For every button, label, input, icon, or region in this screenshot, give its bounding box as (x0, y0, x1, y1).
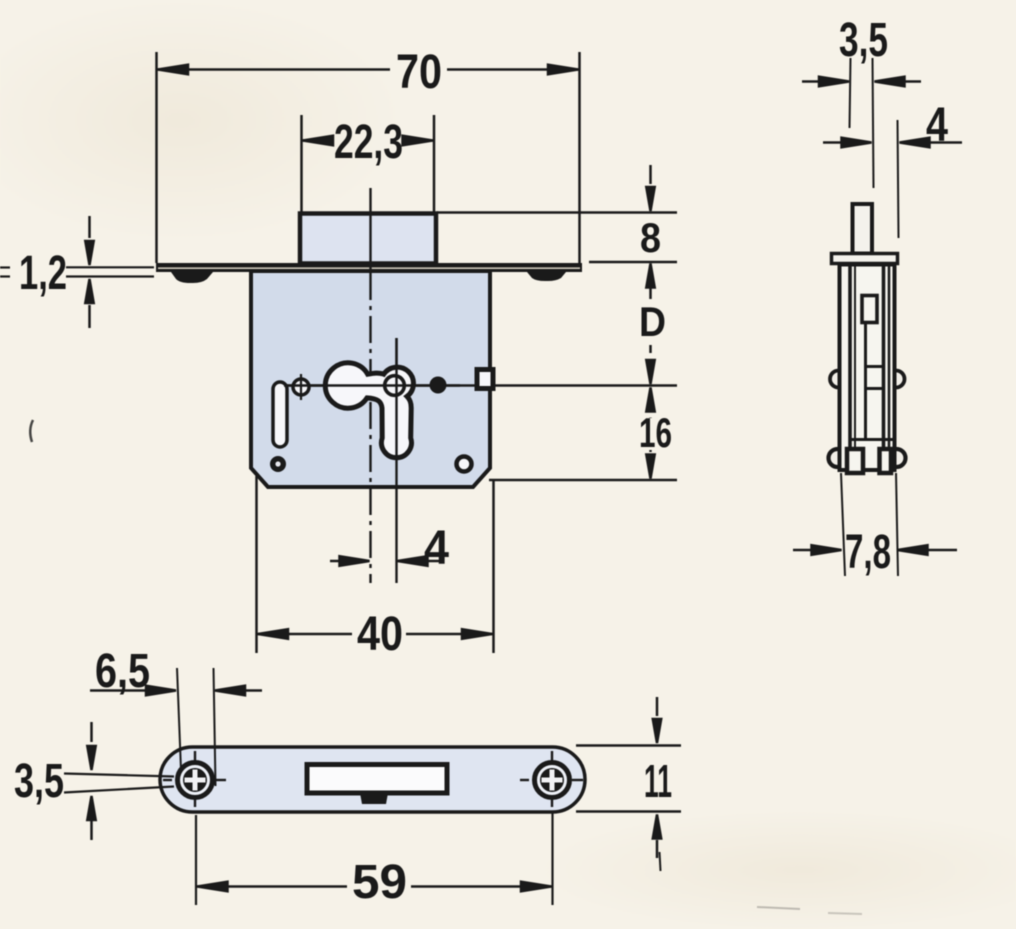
svg-text:D: D (639, 298, 666, 345)
svg-text:22,3: 22,3 (334, 116, 403, 169)
svg-text:6,5: 6,5 (95, 645, 150, 698)
svg-text:8: 8 (640, 214, 661, 261)
svg-text:3,5: 3,5 (14, 755, 64, 808)
svg-text:59: 59 (352, 856, 407, 909)
svg-text:3,5: 3,5 (839, 14, 888, 67)
svg-text:1,2: 1,2 (19, 247, 67, 300)
svg-text:70: 70 (396, 46, 442, 99)
svg-text:16: 16 (639, 409, 672, 456)
svg-text:11: 11 (644, 755, 672, 807)
svg-text:4: 4 (926, 99, 948, 152)
svg-text:40: 40 (357, 608, 403, 661)
svg-text:7,8: 7,8 (845, 526, 891, 579)
svg-text:4: 4 (424, 522, 449, 575)
